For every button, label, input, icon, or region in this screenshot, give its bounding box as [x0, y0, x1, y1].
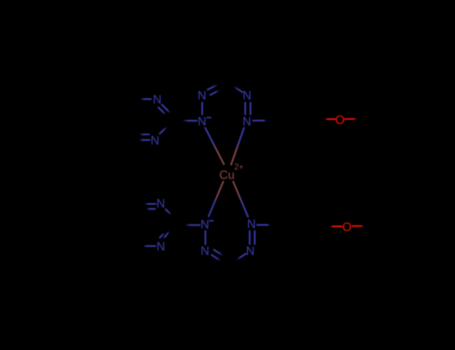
bond O-CH3 stub right (bottom)	[352, 225, 364, 227]
bond N5prime-phenyl stub (bottom)	[256, 224, 270, 226]
svg-text:N: N	[198, 114, 207, 128]
bond N1prime-N2prime single vertical (bottom)	[204, 230, 206, 245]
bond N-C2 single (top pyrimidine lower diagonal)	[159, 127, 167, 134]
svg-text:N: N	[246, 244, 255, 258]
bond N5-phenyl stub (top)	[252, 120, 266, 122]
bond N4prime=N5prime double vertical line a (bottom)	[249, 230, 251, 245]
bond N=C4 double inner (top pyrimidine)	[140, 133, 150, 135]
bond N1-N2 single vertical (top)	[201, 102, 203, 115]
bond N=C2 double main (top pyrimidine upper-right diagonal)	[161, 104, 170, 113]
svg-text:Cu: Cu	[219, 168, 234, 182]
charge minus on N1prime	[209, 220, 214, 221]
coordinate bond Cu-N5prime (bottom-right)	[233, 181, 248, 217]
svg-text:N: N	[242, 114, 251, 128]
bond C3-N4 single (top, fades to apex)	[234, 86, 243, 92]
svg-text:N: N	[247, 217, 256, 231]
bond N4=N5 double vertical line b (top)	[250, 102, 252, 115]
svg-text:O: O	[335, 113, 344, 127]
bond C2prime-N1prime (pyrimidine to formazan N, bottom)	[185, 224, 201, 226]
bond C2-N1 (pyrimidine to formazan N, top)	[183, 120, 198, 122]
bond N2=C3 double line b (top)	[210, 90, 220, 95]
svg-text:N: N	[198, 89, 207, 103]
bond phenyl-O stub left (top)	[325, 118, 336, 120]
svg-text:N: N	[200, 218, 209, 232]
svg-text:N: N	[201, 244, 210, 258]
svg-text:2+: 2+	[234, 163, 243, 172]
bond C3prime-N4prime single (bottom, fades to apex)	[236, 253, 246, 260]
bond N-C6 single stub (bottom pyrimidine lower-left)	[143, 245, 156, 247]
bond N=C2 double inner (top pyrimidine)	[158, 107, 166, 115]
bond N=C2 double inner (bottom pyrimidine)	[159, 233, 164, 238]
coordinate bond N5-Cu (top-right)	[231, 127, 244, 165]
coordinate bond Cu-N1prime (bottom-left)	[208, 181, 223, 217]
svg-text:N: N	[243, 89, 252, 103]
bond O-CH3 stub right (top)	[344, 118, 357, 120]
svg-text:N: N	[151, 134, 160, 148]
bond N4=N5 double vertical line a (top)	[244, 102, 246, 115]
bond N=C4 double main (bottom pyrimidine upper-left)	[145, 203, 157, 205]
bond N2prime=C3prime double line b (bottom)	[213, 249, 223, 255]
bond N4prime=N5prime double vertical line b (bottom)	[254, 230, 256, 245]
bond N=C4 double inner (bottom pyrimidine)	[146, 208, 156, 210]
svg-text:N: N	[156, 240, 165, 254]
svg-text:O: O	[342, 220, 351, 234]
bond N=C2 double main (bottom pyrimidine lower diagonal)	[164, 231, 169, 238]
svg-text:N: N	[156, 197, 165, 211]
bond N-C2 single (bottom pyrimidine upper diagonal)	[165, 209, 171, 215]
charge minus on N1 (top)	[207, 117, 212, 118]
bond N=C4 double main (top pyrimidine lower-left)	[139, 139, 150, 141]
coordinate bond N1-Cu (top-left)	[205, 127, 224, 165]
bond N2prime=C3prime double line a (bottom, fades to apex)	[211, 255, 221, 261]
bond N-C6 single stub (top pyrimidine upper-left)	[140, 98, 151, 100]
bond phenyl-O stub left (bottom)	[330, 225, 342, 227]
svg-text:N: N	[153, 93, 162, 107]
bond N2=C3 double line a (top, fades to apex)	[207, 85, 218, 91]
